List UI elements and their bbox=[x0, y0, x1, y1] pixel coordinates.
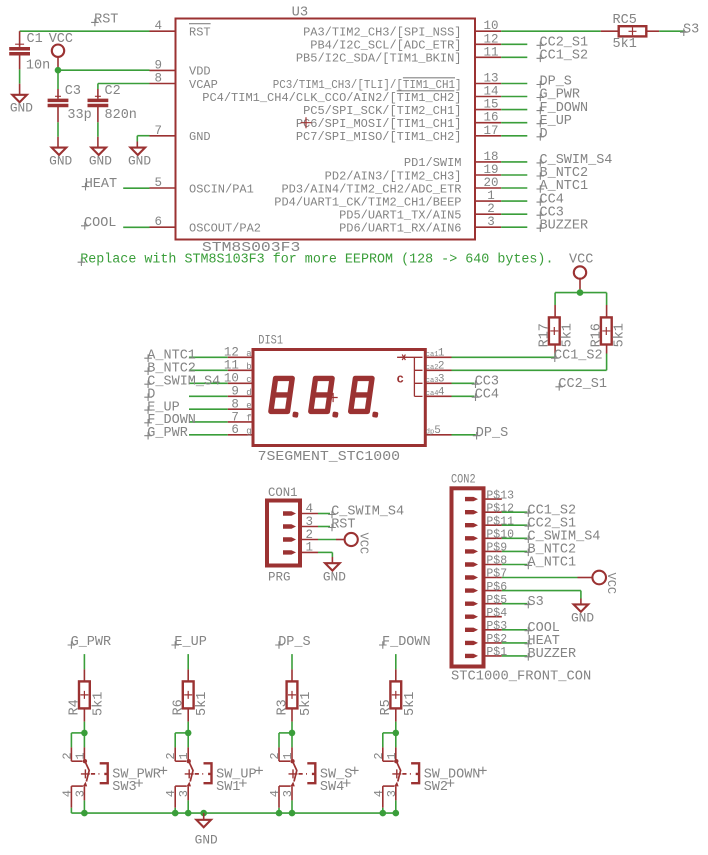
svg-text:4: 4 bbox=[154, 19, 162, 33]
svg-text:P$5: P$5 bbox=[486, 594, 507, 607]
wire COOL to U3 pin6 bbox=[123, 226, 149, 228]
svg-text:18: 18 bbox=[483, 150, 498, 164]
resistor R4 bbox=[68, 669, 107, 721]
CON2 pin P$4 pad bbox=[465, 607, 507, 620]
DIS1 pin 2 ca2 stub bbox=[426, 361, 452, 373]
CON2 pin P$1 pad bbox=[465, 646, 507, 659]
svg-text:11: 11 bbox=[483, 45, 498, 59]
node E_UP label bbox=[537, 114, 572, 129]
svg-text:RC5: RC5 bbox=[613, 13, 637, 28]
node A_NTC1 label at CON2 bbox=[525, 556, 577, 571]
svg-text:U3: U3 bbox=[292, 6, 309, 21]
svg-text:33p: 33p bbox=[67, 108, 91, 123]
power VCC at CON2 bbox=[592, 571, 618, 594]
node COOL label bbox=[81, 216, 116, 231]
svg-text:8: 8 bbox=[154, 72, 162, 86]
node D label bbox=[537, 127, 548, 142]
svg-text:5k1: 5k1 bbox=[299, 692, 314, 716]
ground under C1 bbox=[10, 95, 33, 116]
wire net BUZZER at CON2 P$1 bbox=[502, 655, 528, 657]
svg-text:4: 4 bbox=[164, 790, 178, 797]
wire C2 to GND bbox=[97, 122, 99, 147]
wire switch SW2 to ground bus bbox=[383, 800, 396, 813]
node CC3 label at display bbox=[472, 374, 499, 389]
svg-text:2: 2 bbox=[438, 361, 445, 373]
wire net C_SWIM_S4 at CON2 P$10 bbox=[502, 537, 528, 539]
svg-text:PC5/SPI_SCK/[TIM2_CH1]: PC5/SPI_SCK/[TIM2_CH1] bbox=[303, 104, 461, 118]
node S3 label at CON2 bbox=[525, 595, 544, 610]
node DP_S label bbox=[537, 75, 572, 90]
svg-text:5k1: 5k1 bbox=[91, 692, 106, 716]
note text about EEPROM bbox=[78, 252, 554, 267]
svg-text:4: 4 bbox=[438, 387, 445, 399]
node HEAT label bbox=[82, 177, 117, 192]
switch SW3 SW_PWR bbox=[60, 747, 167, 807]
svg-text:820n: 820n bbox=[105, 108, 137, 123]
svg-text:7SEGMENT_STC1000: 7SEGMENT_STC1000 bbox=[258, 449, 400, 465]
wire net C_SWIM_S4 at U3 pin 18 bbox=[501, 161, 527, 163]
svg-text:COOL: COOL bbox=[84, 216, 116, 231]
svg-text:1: 1 bbox=[306, 541, 314, 555]
node BUZZER label at CON2 bbox=[525, 647, 577, 662]
wire net A_NTC1 at U3 pin 20 bbox=[501, 187, 527, 189]
resistor R17 bbox=[538, 305, 576, 354]
switch SW1 SW_UP bbox=[164, 747, 263, 807]
resistor R3 bbox=[275, 669, 314, 721]
node G_PWR label bbox=[537, 88, 581, 103]
wire net CC4 at U3 pin 1 bbox=[501, 200, 527, 202]
node DP_S label at display bbox=[473, 426, 508, 441]
switch SW2 SW_DOWN bbox=[372, 747, 487, 807]
svg-text:GND: GND bbox=[195, 832, 218, 847]
wire switch SW4 to ground bus bbox=[279, 800, 292, 813]
wire VCC to pin9 and C3, junction bbox=[55, 67, 150, 89]
svg-text:9: 9 bbox=[154, 58, 162, 72]
svg-text:C_SWIM_S4: C_SWIM_S4 bbox=[147, 374, 220, 389]
svg-text:CC4: CC4 bbox=[475, 387, 499, 402]
wire RST at CON1 pin3 bbox=[318, 526, 330, 528]
svg-text:BUZZER: BUZZER bbox=[540, 218, 589, 233]
svg-text:CON1: CON1 bbox=[268, 486, 298, 500]
svg-text:1: 1 bbox=[438, 348, 445, 360]
resistor RC5 bbox=[601, 13, 659, 52]
DIS1 pin 3 ca3 stub bbox=[426, 374, 452, 386]
node CC2_S1 label bbox=[537, 36, 589, 51]
wire RST net to U3 pin 4 bbox=[20, 30, 150, 32]
svg-text:PC3/TIM1_CH3/[TLI]/[TIM1_CH1]: PC3/TIM1_CH3/[TLI]/[TIM1_CH1] bbox=[273, 78, 462, 92]
svg-text:PD2/AIN3/[TIM2_CH3]: PD2/AIN3/[TIM2_CH3] bbox=[325, 169, 462, 183]
node CC2_S1 label floating bbox=[555, 377, 607, 392]
wire net B_NTC2 to DIS1 bbox=[189, 369, 228, 371]
display origin cross bbox=[329, 393, 338, 402]
svg-text:SW4: SW4 bbox=[320, 780, 344, 795]
wire G_PWR to R4 bbox=[83, 654, 85, 669]
node RST label at CON1 bbox=[328, 518, 355, 533]
svg-text:ca1: ca1 bbox=[426, 351, 439, 359]
wire net G_PWR to DIS1 bbox=[189, 434, 228, 436]
svg-text:2: 2 bbox=[60, 752, 74, 759]
wire net A_NTC1 at CON2 P$8 bbox=[502, 564, 528, 566]
svg-text:P$8: P$8 bbox=[486, 555, 507, 568]
svg-text:PD6/UART1_RX/AIN6: PD6/UART1_RX/AIN6 bbox=[339, 222, 461, 236]
ground under U3 pin7 bbox=[128, 148, 151, 169]
U3 pin 16 PC6/SPI_MOSI/[TIM1_CH1] stub bbox=[296, 111, 501, 131]
svg-text:R4: R4 bbox=[68, 699, 83, 715]
svg-text:d: d bbox=[246, 388, 251, 398]
U3 pin 1 PD4/UART1_CK/TIM2_CH1/BEEP stub bbox=[274, 189, 501, 209]
svg-text:16: 16 bbox=[483, 111, 498, 125]
svg-text:1: 1 bbox=[73, 752, 87, 759]
svg-text:GND: GND bbox=[49, 154, 72, 169]
node C_SWIM_S4 label bbox=[537, 153, 613, 168]
wire net C_SWIM_S4 to DIS1 bbox=[189, 382, 228, 384]
svg-text:P$10: P$10 bbox=[486, 529, 514, 542]
wire switch SW1 to ground bus bbox=[175, 800, 188, 813]
node RST label bbox=[91, 13, 118, 28]
svg-text:4: 4 bbox=[306, 502, 314, 516]
svg-text:DIS1: DIS1 bbox=[258, 333, 283, 347]
svg-text:e: e bbox=[246, 401, 251, 411]
node F_DOWN label top bbox=[379, 635, 431, 650]
svg-text:6: 6 bbox=[231, 423, 239, 437]
wire net B_NTC2 at CON2 P$9 bbox=[502, 550, 528, 552]
connector CON1 box bbox=[267, 486, 300, 585]
wire net E_UP to DIS1 bbox=[189, 408, 228, 410]
wire RC5 to S3 bbox=[659, 30, 684, 32]
svg-text:a: a bbox=[246, 349, 252, 359]
CON2 pin P$3 pad bbox=[465, 620, 507, 633]
U3 pin 11 PB5/I2C_SDA/[TIM1_BKIN] stub bbox=[296, 45, 501, 65]
resistor R5 bbox=[379, 669, 418, 721]
svg-text:1: 1 bbox=[177, 752, 191, 759]
svg-text:ca4: ca4 bbox=[426, 390, 439, 398]
svg-text:R16: R16 bbox=[590, 323, 605, 347]
svg-text:VCC: VCC bbox=[356, 533, 370, 555]
wire net DP_S at U3 pin 13 bbox=[501, 83, 527, 85]
svg-text:5: 5 bbox=[434, 425, 441, 437]
display DIS1 7-segment box bbox=[253, 333, 425, 464]
svg-text:P$4: P$4 bbox=[486, 607, 507, 620]
svg-text:PC7/SPI_MISO/[TIM1_CH2]: PC7/SPI_MISO/[TIM1_CH2] bbox=[296, 130, 462, 144]
junction dots on ground bus bbox=[81, 810, 399, 817]
svg-text:7: 7 bbox=[231, 410, 239, 424]
U3 pin 19 PD2/AIN3/[TIM2_CH3] stub bbox=[325, 163, 502, 183]
svg-text:SW1: SW1 bbox=[216, 780, 240, 795]
CON2 pin P$5 pad bbox=[465, 594, 507, 607]
svg-text:DP_S: DP_S bbox=[476, 426, 508, 441]
wire net F_DOWN at U3 pin 15 bbox=[501, 109, 527, 111]
U3 pin 5 OSCIN/PA1 stub bbox=[150, 176, 254, 196]
svg-text:4: 4 bbox=[372, 790, 386, 797]
node C_SWIM_S4 label at CON1 bbox=[328, 505, 404, 520]
node F_DOWN label bbox=[537, 101, 589, 116]
svg-text:PD5/UART1_TX/AIN5: PD5/UART1_TX/AIN5 bbox=[339, 209, 461, 223]
svg-text:Replace with STM8S103F3 for mo: Replace with STM8S103F3 for more EEPROM … bbox=[80, 252, 553, 267]
resistor R16 bbox=[590, 305, 628, 354]
svg-text:RST: RST bbox=[331, 518, 355, 533]
svg-text:G_PWR: G_PWR bbox=[71, 635, 112, 650]
svg-text:S3: S3 bbox=[528, 595, 544, 610]
wire net BUZZER at U3 pin 3 bbox=[501, 226, 527, 228]
svg-text:CON2: CON2 bbox=[451, 472, 476, 486]
svg-text:3: 3 bbox=[385, 790, 399, 797]
svg-text:b: b bbox=[246, 362, 251, 372]
capacitor C1 bbox=[9, 31, 50, 73]
U3 pin 3 PD6/UART1_RX/AIN6 stub bbox=[339, 215, 501, 235]
svg-text:P$6: P$6 bbox=[486, 581, 507, 594]
wire DP_S to R3 bbox=[291, 654, 293, 669]
U3 pin 9 VDD stub bbox=[150, 58, 211, 78]
svg-text:dp: dp bbox=[426, 428, 434, 436]
node E_UP label top bbox=[171, 635, 206, 650]
svg-text:5k1: 5k1 bbox=[613, 323, 628, 347]
svg-text:P$7: P$7 bbox=[486, 568, 507, 581]
svg-text:17: 17 bbox=[483, 124, 498, 138]
svg-text:GND: GND bbox=[10, 100, 33, 115]
display common anode bracket and c marker bbox=[397, 355, 423, 397]
U3 symbol origin cross bbox=[301, 117, 312, 128]
CON1 pin 2 pad bbox=[283, 528, 318, 542]
node CC4 label bbox=[537, 192, 564, 207]
svg-text:C1: C1 bbox=[27, 32, 43, 47]
node CC1_S2 label at CON2 bbox=[525, 503, 577, 518]
wire switch SW3 to ground bus bbox=[71, 800, 84, 813]
wire net CC3 at U3 pin 2 bbox=[501, 213, 527, 215]
wire GND at CON2 P$6 bbox=[502, 591, 581, 605]
svg-text:3: 3 bbox=[438, 374, 445, 386]
node C_SWIM_S4 label at display bbox=[144, 374, 220, 389]
node DP_S label top bbox=[275, 635, 310, 650]
svg-text:P$1: P$1 bbox=[486, 646, 507, 659]
node D label at display bbox=[144, 387, 155, 402]
svg-text:S3: S3 bbox=[683, 22, 699, 37]
svg-text:4: 4 bbox=[268, 790, 282, 797]
svg-text:GND: GND bbox=[571, 611, 594, 626]
svg-text:2: 2 bbox=[487, 202, 495, 216]
node E_UP label at display bbox=[144, 400, 179, 415]
svg-text:3: 3 bbox=[281, 790, 295, 797]
U3 pin 12 PB4/I2C_SCL/[ADC_ETR] stub bbox=[310, 32, 501, 52]
svg-text:PC4/TIM1_CH4/CLK_CCO/AIN2/[TIM: PC4/TIM1_CH4/CLK_CCO/AIN2/[TIM1_CH2] bbox=[202, 91, 461, 105]
svg-text:3: 3 bbox=[487, 215, 495, 229]
node G_PWR label top bbox=[68, 635, 112, 650]
ground under C2 bbox=[89, 148, 112, 169]
svg-text:5k1: 5k1 bbox=[195, 692, 210, 716]
svg-text:PD3/AIN4/TIM2_CH2/ADC_ETR: PD3/AIN4/TIM2_CH2/ADC_ETR bbox=[281, 182, 461, 196]
switch SW4 SW_S bbox=[268, 747, 359, 807]
svg-text:f: f bbox=[246, 414, 251, 424]
wire R5 to switch SW2, junction bbox=[383, 722, 399, 748]
connector CON2 box bbox=[451, 472, 591, 684]
svg-text:VCC: VCC bbox=[604, 573, 618, 595]
svg-text:13: 13 bbox=[483, 72, 498, 86]
svg-text:2: 2 bbox=[164, 752, 178, 759]
svg-text:ca3: ca3 bbox=[426, 377, 439, 385]
svg-text:CC1_S2: CC1_S2 bbox=[554, 348, 603, 363]
svg-text:C3: C3 bbox=[65, 84, 81, 99]
U3 pin 8 VCAP stub bbox=[150, 72, 218, 92]
svg-text:R3: R3 bbox=[275, 699, 290, 715]
wire net B_NTC2 at U3 pin 19 bbox=[501, 174, 527, 176]
node G_PWR label at display bbox=[144, 426, 188, 441]
wire R17 to display ca1 net CC1_S2 bbox=[452, 354, 556, 358]
resistor R6 bbox=[172, 669, 211, 721]
svg-text:1: 1 bbox=[385, 752, 399, 759]
wire R4 to switch SW3, junction bbox=[71, 722, 87, 748]
wire VCC at CON2 P$7 bbox=[502, 577, 593, 579]
svg-text:GND: GND bbox=[323, 569, 346, 584]
wire R6 to switch SW1, junction bbox=[175, 722, 191, 748]
node CC1_S2 label at display bbox=[551, 348, 603, 363]
wire VCC at CON1 pin2 bbox=[318, 539, 345, 541]
wire HEAT to U3 pin5 bbox=[123, 187, 149, 189]
wire net COOL at CON2 P$3 bbox=[502, 629, 528, 631]
svg-text:R17: R17 bbox=[538, 323, 553, 347]
svg-text:A_NTC1: A_NTC1 bbox=[528, 556, 577, 571]
node B_NTC2 label bbox=[537, 166, 589, 181]
svg-text:P$3: P$3 bbox=[486, 620, 507, 633]
ground at CON2 bbox=[571, 604, 594, 625]
CON2 pin P$13 pad bbox=[465, 489, 514, 502]
power VCC at CON1 bbox=[345, 533, 371, 555]
wire net D to DIS1 bbox=[189, 395, 228, 397]
svg-text:20: 20 bbox=[483, 176, 498, 190]
U3 pin 6 OSCOUT/PA2 stub bbox=[150, 215, 262, 235]
node C_SWIM_S4 label at CON2 bbox=[525, 529, 601, 544]
ground at CON1 bbox=[323, 563, 346, 584]
svg-text:P$9: P$9 bbox=[486, 542, 507, 555]
svg-text:BUZZER: BUZZER bbox=[528, 647, 577, 662]
ground under C3 bbox=[49, 148, 72, 169]
DIS1 pin 4 ca4 stub bbox=[426, 387, 452, 399]
CON1 pin 3 pad bbox=[283, 515, 318, 529]
wire ground bus bbox=[71, 812, 395, 814]
wire C3 to GND bbox=[57, 122, 59, 147]
DIS1 pin 6 g stub bbox=[228, 423, 253, 437]
svg-text:OSCOUT/PA2: OSCOUT/PA2 bbox=[189, 222, 261, 236]
svg-text:5: 5 bbox=[154, 176, 162, 190]
wire net E_UP at U3 pin 16 bbox=[501, 122, 527, 124]
node CC2_S1 label at CON2 bbox=[525, 516, 577, 531]
svg-text:R5: R5 bbox=[379, 699, 394, 715]
svg-text:GND: GND bbox=[189, 130, 211, 144]
U3 pin 13 PC3/TIM1_CH3/[TLI]/[TIM1_CH1] stub bbox=[273, 72, 502, 92]
svg-text:2: 2 bbox=[268, 752, 282, 759]
wire net CC1_S2 at CON2 P$12 bbox=[502, 511, 528, 513]
svg-text:E_UP: E_UP bbox=[174, 635, 206, 650]
U3 pin 20 PD3/AIN4/TIM2_CH2/ADC_ETR stub bbox=[281, 176, 501, 196]
svg-text:DP_S: DP_S bbox=[278, 635, 310, 650]
node CC4 label at display bbox=[472, 387, 499, 402]
U3 pin 2 PD5/UART1_TX/AIN5 stub bbox=[339, 202, 501, 222]
svg-text:12: 12 bbox=[483, 32, 498, 46]
node B_NTC2 label at CON2 bbox=[525, 543, 577, 558]
svg-text:3: 3 bbox=[177, 790, 191, 797]
wire C_SWIM_S4 at CON1 pin4 bbox=[318, 513, 330, 515]
DIS1 pin 5 dp stub bbox=[426, 425, 452, 437]
wire net CC1_S2 at U3 pin 11 bbox=[501, 56, 527, 58]
wire net CC3 to DIS1 ca3 bbox=[452, 382, 475, 384]
svg-text:P$2: P$2 bbox=[486, 633, 507, 646]
U3 pin 14 PC4/TIM1_CH4/CLK_CCO/AIN2/[TIM1_CH2] stub bbox=[202, 85, 501, 105]
node COOL label at CON2 bbox=[525, 621, 560, 636]
DIS1 pin 7 f stub bbox=[228, 410, 253, 424]
svg-text:3: 3 bbox=[306, 515, 314, 529]
DIS1 pin 8 e stub bbox=[228, 398, 253, 412]
svg-text:R6: R6 bbox=[172, 699, 187, 715]
wire net D at U3 pin 17 bbox=[501, 135, 527, 137]
U3 pin 4 RST stub bbox=[150, 19, 211, 39]
DIS1 pin 1 ca1 stub bbox=[426, 348, 452, 360]
svg-text:SW3: SW3 bbox=[112, 780, 136, 795]
wire U3 pin10 to RC5 bbox=[501, 30, 601, 32]
svg-text:PB4/I2C_SCL/[ADC_ETR]: PB4/I2C_SCL/[ADC_ETR] bbox=[310, 39, 461, 53]
svg-text:GND: GND bbox=[128, 154, 151, 169]
wire VCC to R17 and R16, junction bbox=[555, 289, 607, 305]
svg-text:VDD: VDD bbox=[189, 65, 211, 79]
CON2 pin P$6 pad bbox=[465, 581, 507, 594]
DIS1 pin 9 d stub bbox=[228, 385, 253, 399]
CON2 pin P$12 pad bbox=[465, 502, 514, 515]
CON2 pin P$8 pad bbox=[465, 555, 507, 568]
node B_NTC2 label at display bbox=[144, 361, 196, 376]
svg-text:PRG: PRG bbox=[268, 571, 291, 585]
svg-text:1: 1 bbox=[487, 189, 495, 203]
node A_NTC1 label at display bbox=[144, 348, 196, 363]
svg-text:5k1: 5k1 bbox=[403, 692, 418, 716]
node F_DOWN label at display bbox=[144, 413, 196, 428]
wire U3 pin8 to C2 bbox=[98, 84, 150, 90]
svg-text:4: 4 bbox=[60, 790, 74, 797]
svg-text:c: c bbox=[397, 373, 405, 387]
capacitor C3 bbox=[48, 84, 92, 123]
svg-text:10: 10 bbox=[483, 19, 498, 33]
IC U3 STM8S003F3 box bbox=[176, 6, 476, 256]
node BUZZER label bbox=[537, 218, 589, 233]
wire net CC2_S1 at U3 pin 12 bbox=[501, 43, 527, 45]
svg-text:7: 7 bbox=[154, 124, 162, 138]
svg-text:PB5/I2C_SDA/[TIM1_BKIN]: PB5/I2C_SDA/[TIM1_BKIN] bbox=[296, 52, 462, 66]
svg-text:C2: C2 bbox=[105, 84, 121, 99]
U3 pin 18 PD1/SWIM stub bbox=[404, 150, 501, 170]
svg-text:15: 15 bbox=[483, 98, 498, 112]
wire R3 to switch SW4, junction bbox=[279, 722, 295, 748]
CON2 pin P$10 pad bbox=[465, 529, 514, 542]
svg-text:GND: GND bbox=[89, 154, 112, 169]
DIS1 pin 11 b stub bbox=[224, 359, 253, 373]
svg-text:RST: RST bbox=[94, 13, 118, 28]
svg-text:ca2: ca2 bbox=[426, 364, 439, 372]
node HEAT label at CON2 bbox=[525, 634, 560, 649]
wire net CC2_S1 at CON2 P$11 bbox=[502, 524, 528, 526]
CON1 pin 4 pad bbox=[283, 502, 318, 516]
CON2 pin P$9 pad bbox=[465, 542, 507, 555]
DIS1 pin 10 c stub bbox=[224, 372, 253, 386]
svg-text:10n: 10n bbox=[26, 58, 50, 73]
node A_NTC1 label bbox=[537, 179, 589, 194]
svg-text:g: g bbox=[246, 426, 251, 436]
wire net F_DOWN to DIS1 bbox=[189, 421, 228, 423]
svg-text:3: 3 bbox=[73, 790, 87, 797]
ground bottom bbox=[195, 820, 218, 848]
svg-text:OSCIN/PA1: OSCIN/PA1 bbox=[189, 182, 254, 196]
wire net G_PWR at U3 pin 14 bbox=[501, 96, 527, 98]
svg-text:RST: RST bbox=[189, 26, 211, 40]
svg-text:6: 6 bbox=[154, 215, 162, 229]
wire net CC4 to DIS1 ca4 bbox=[452, 395, 475, 397]
svg-text:9: 9 bbox=[231, 385, 239, 399]
svg-text:1: 1 bbox=[281, 752, 295, 759]
